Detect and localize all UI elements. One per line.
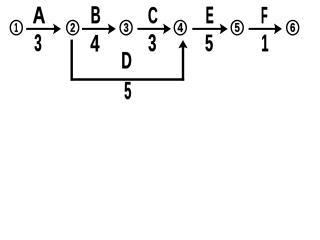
label 5 (duration of E)	[206, 35, 213, 52]
label B	[92, 6, 100, 23]
label E	[207, 7, 214, 23]
activity arrow C	[137, 24, 171, 35]
label A	[33, 7, 45, 23]
label 3 (duration of A)	[35, 34, 42, 51]
activity arrow A	[26, 24, 61, 35]
label 4 (duration of B)	[91, 35, 100, 51]
label C	[149, 7, 158, 23]
node 2 (event circle)	[67, 20, 79, 34]
label 1 (duration of F)	[262, 35, 268, 52]
dummy activity D path: wire up into node 4 with arrowhead	[178, 40, 187, 81]
node 6 (event circle)	[287, 20, 299, 34]
label 3 (duration of C)	[149, 34, 156, 51]
activity arrow F	[249, 24, 282, 35]
activity arrow B	[82, 24, 116, 35]
node 1 (event circle)	[10, 20, 22, 34]
dummy activity D path: horizontal wire	[71, 78, 185, 81]
dummy activity D path: wire from node 2 down	[70, 40, 72, 81]
label F	[262, 7, 267, 23]
node 5 (event circle)	[231, 20, 243, 34]
activity arrow E	[192, 24, 227, 35]
node 4 (event circle)	[174, 20, 186, 34]
node 3 (event circle)	[120, 20, 132, 34]
label D	[122, 52, 131, 68]
label 1 foot serif	[262, 49, 268, 51]
label 5 (duration of D)	[125, 82, 131, 99]
